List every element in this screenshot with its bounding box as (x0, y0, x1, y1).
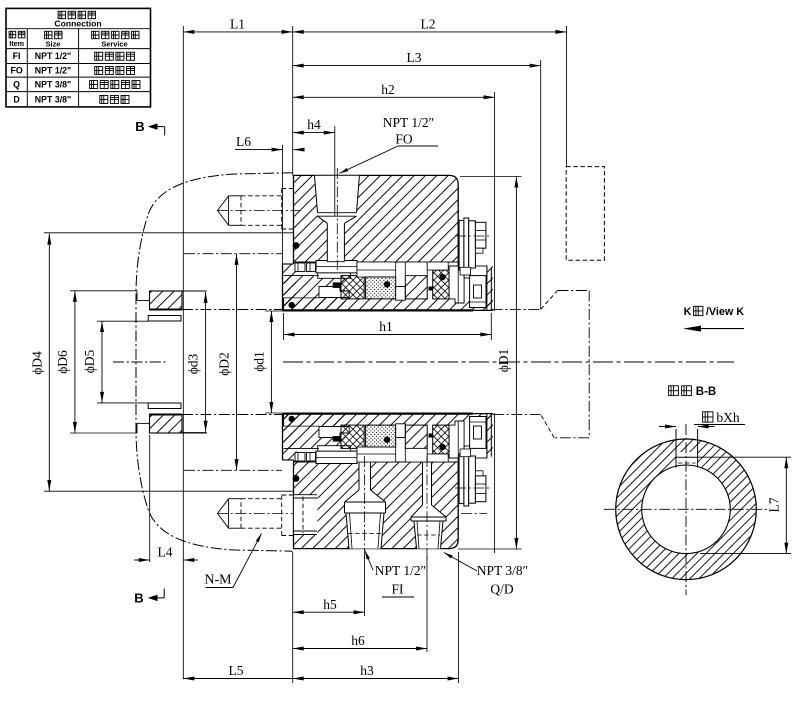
dimension D1 (515, 177, 517, 550)
svg-text:L3: L3 (407, 50, 422, 65)
gland throttle-bushing lip (283, 413, 297, 460)
gland bolt N-M (hidden) (217, 210, 300, 212)
stuffing-box face step (136, 423, 138, 433)
dimension L1 (183, 31, 292, 33)
set-screw block (464, 266, 487, 278)
stepped spacer (396, 287, 406, 301)
svg-text:NPT 1/2″: NPT 1/2″ (375, 563, 427, 578)
svg-text:NPT 1/2": NPT 1/2" (35, 65, 71, 75)
sleeve outline (283, 298, 285, 311)
phantom pump housing outline (136, 173, 293, 551)
svg-text:h6: h6 (351, 633, 365, 648)
outboard retainer parts (449, 421, 464, 458)
keyway (675, 429, 677, 468)
gland plate (hatched body) (294, 462, 459, 549)
flush outlet port FO (315, 176, 360, 262)
collar hex screw (475, 222, 486, 248)
svg-text:NPT 1/2": NPT 1/2" (35, 51, 71, 61)
svg-text:B-B: B-B (696, 386, 716, 398)
svg-text:Item: Item (9, 39, 24, 48)
svg-text:ϕd3: ϕd3 (186, 353, 201, 374)
shaft centerline (283, 361, 734, 363)
svg-text:/View K: /View K (706, 306, 744, 318)
dimension L2 (293, 31, 567, 33)
seal assembly lower half (mirrored) (137, 403, 493, 549)
hidden coupling guard rectangle (566, 167, 604, 261)
dimension h3 (293, 678, 459, 680)
svg-text:bXh: bXh (716, 410, 739, 425)
gland throttle-bushing lip (283, 264, 297, 311)
svg-text:h3: h3 (360, 663, 374, 678)
extension lines (182, 26, 184, 679)
dimension D5 (101, 321, 103, 403)
sleeve end spacer (hatched) (487, 413, 493, 458)
shaft sleeve (hatched) (284, 413, 493, 426)
O-rings (293, 242, 300, 249)
set-screw block (464, 446, 487, 458)
outboard rotating ring (hatched) (405, 425, 427, 448)
pump-side drive collar (hatched) (150, 415, 183, 434)
section B-B centerlines (604, 508, 769, 510)
spring slot in rotor (319, 287, 349, 298)
spring retainer pieces (295, 453, 305, 462)
dimension h5 (293, 611, 365, 613)
dimension D6 (74, 291, 76, 433)
svg-text:FO: FO (10, 65, 22, 75)
svg-text:FI: FI (391, 582, 404, 597)
svg-text:L5: L5 (229, 663, 244, 678)
svg-text:Service: Service (101, 39, 127, 48)
drive collar plates (459, 454, 464, 504)
spring slot in rotor (319, 427, 349, 438)
sleeve outline (283, 413, 285, 426)
svg-text:FO: FO (395, 132, 413, 147)
rotating seal face (cross-hatched) (341, 425, 364, 448)
outboard retainer parts (449, 266, 464, 303)
stepped spacer (396, 424, 406, 438)
svg-text:h5: h5 (323, 597, 337, 612)
gland outline (294, 175, 459, 267)
shaft sleeve (hatched) (284, 298, 493, 311)
seal rotor collar (hatched) (284, 276, 346, 311)
spring retainer pieces (295, 263, 305, 272)
seal gland insert strip (357, 447, 396, 462)
svg-text:ϕD1: ϕD1 (496, 349, 511, 373)
svg-text:ϕD6: ϕD6 (55, 350, 70, 374)
svg-text:NPT 1/2″: NPT 1/2″ (383, 115, 435, 130)
phantom coupling outline (492, 308, 541, 310)
svg-text:B: B (135, 119, 144, 134)
dimension D4 (48, 234, 50, 491)
dimension h2 (293, 96, 495, 98)
gland outline (294, 457, 459, 549)
stationary carbon face (stippled) (366, 277, 396, 299)
dimension h6 (293, 648, 427, 650)
dimension L6 (235, 149, 283, 151)
svg-text:Q: Q (13, 79, 20, 89)
svg-text:L6: L6 (236, 134, 251, 149)
svg-text:ϕd1: ϕd1 (252, 351, 267, 372)
outboard seal face (cross-hatched) (433, 425, 449, 454)
svg-text:D: D (13, 94, 19, 104)
svg-text:ϕD5: ϕD5 (82, 349, 97, 373)
outboard rotating ring (hatched) (405, 276, 427, 299)
svg-text:ϕD4: ϕD4 (30, 351, 45, 375)
collar hex screw (475, 476, 486, 502)
section B-B label (669, 386, 679, 396)
key label bXh (703, 412, 713, 422)
rotating seal face (cross-hatched) (341, 276, 364, 299)
dimension D2 (236, 254, 238, 470)
svg-text:L7: L7 (767, 497, 782, 512)
svg-text:NPT 3/8": NPT 3/8" (35, 79, 71, 89)
svg-text:h4: h4 (307, 117, 321, 132)
svg-text:Size: Size (46, 39, 61, 48)
dimension d3 (205, 292, 207, 432)
stuffing-box face step (136, 291, 138, 301)
sleeve end spacer (hatched) (487, 266, 493, 311)
gland plate (hatched body) (294, 175, 459, 262)
keyway width dimension (659, 426, 676, 428)
svg-text:NPT 3/8": NPT 3/8" (35, 94, 71, 104)
pump-side drive collar (hatched) (150, 291, 183, 310)
section B-B sleeve ring (616, 439, 757, 580)
stationary carbon face (stippled) (366, 425, 396, 447)
svg-text:L4: L4 (158, 545, 173, 560)
svg-text:L1: L1 (230, 17, 245, 32)
svg-text:h2: h2 (381, 82, 395, 97)
dimension L5 (183, 678, 292, 680)
dimension L4 (134, 559, 150, 561)
quench/drain port Q-D (411, 463, 446, 549)
svg-text:NPT 3/8″: NPT 3/8″ (477, 563, 529, 578)
connection table (6, 8, 151, 107)
seal assembly upper half (137, 175, 493, 321)
svg-text:h1: h1 (379, 319, 393, 334)
svg-text:N-M: N-M (204, 573, 232, 588)
seal gland insert strip (357, 262, 396, 277)
dimension d1 (270, 311, 272, 413)
seal rotor collar (hatched) (284, 413, 346, 448)
O-rings (293, 475, 300, 482)
drive collar plates (459, 220, 464, 270)
dimension h4 (293, 132, 335, 134)
hidden sleeve lines (182, 309, 284, 311)
svg-text:Q/D: Q/D (490, 582, 514, 597)
dimension h1 (284, 334, 492, 336)
flush inlet port FI (345, 463, 386, 549)
svg-text:L2: L2 (421, 17, 436, 32)
diameter extension lines (44, 232, 293, 234)
dimension L7 (785, 457, 787, 553)
collar step (460, 449, 471, 457)
gland bolt clearance hole (lower) (294, 495, 318, 534)
svg-text:Connection: Connection (54, 19, 101, 29)
dimension L3 (293, 65, 541, 67)
outboard seal face (cross-hatched) (433, 270, 449, 299)
hidden sleeve lines (182, 414, 284, 416)
gland bolt N-M (hidden) (217, 513, 300, 515)
svg-text:B: B (134, 591, 143, 606)
svg-text:FI: FI (13, 51, 21, 61)
collar step (460, 267, 471, 275)
svg-text:ϕD2: ϕD2 (217, 352, 232, 376)
svg-text:K: K (684, 306, 692, 318)
